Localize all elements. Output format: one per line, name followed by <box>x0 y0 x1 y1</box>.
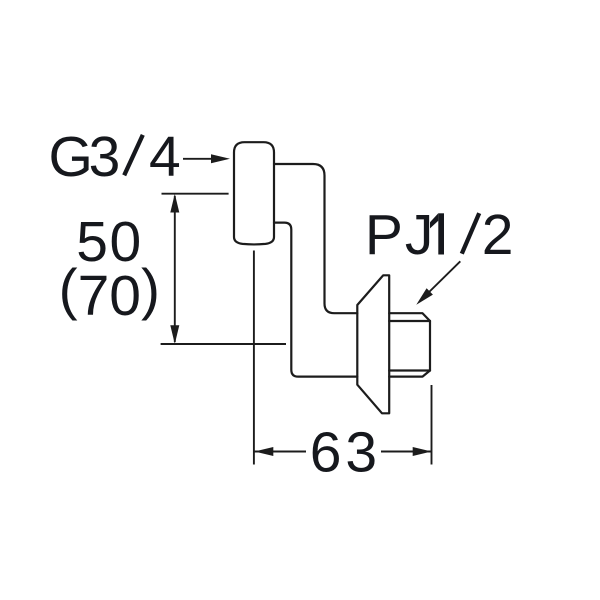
thread outer bottom edge with chamfer <box>389 371 430 377</box>
arrowhead 63 dim right (points right) <box>413 447 432 456</box>
slash of G3/4 <box>124 135 143 175</box>
arrowhead 50 dim top (points up) <box>170 194 179 213</box>
63 dimension line right segment <box>381 451 432 453</box>
svg-text:(70): (70) <box>59 258 160 329</box>
PJ1/2 leader line <box>424 261 460 297</box>
extension line below cylinder (63 dim left) <box>253 251 255 465</box>
G3/4 leader line <box>183 158 214 160</box>
vertical dimension line 50(70) <box>174 196 176 342</box>
flange (escutcheon) <box>357 275 389 413</box>
svg-text:2: 2 <box>482 203 514 267</box>
svg-text:3: 3 <box>89 125 121 189</box>
svg-text:63: 63 <box>310 420 381 484</box>
top extension line (50 dim) <box>162 193 229 195</box>
thread top chamfer line <box>389 320 430 322</box>
bottom extension line (50 dim / outlet centerline) <box>161 343 286 345</box>
svg-text:PJ: PJ <box>365 203 436 267</box>
arrowhead 63 dim left (points left) <box>255 447 274 456</box>
pipe upper-right edge <box>274 164 357 313</box>
thread outer top edge with chamfer <box>389 313 430 321</box>
arrowhead G3/4 (points right at cylinder) <box>211 154 230 163</box>
arrowhead 50 dim bottom (points down) <box>170 325 179 344</box>
arrowhead PJ1/2 (points down-left at thread) <box>416 288 433 305</box>
63 dimension line left segment <box>255 451 307 453</box>
thread end face <box>429 321 431 371</box>
thread bottom chamfer line <box>389 369 430 371</box>
digit 1 of PJ1/2 (drawn, no foot) <box>438 213 444 254</box>
svg-text:4: 4 <box>149 125 181 189</box>
svg-text:G: G <box>49 125 93 189</box>
pipe lower-left edge <box>274 223 357 377</box>
slash of PJ1/2 <box>462 213 479 254</box>
cylinder (G3/4 socket) <box>234 142 274 244</box>
right extension line (63 dim right) <box>431 385 433 465</box>
